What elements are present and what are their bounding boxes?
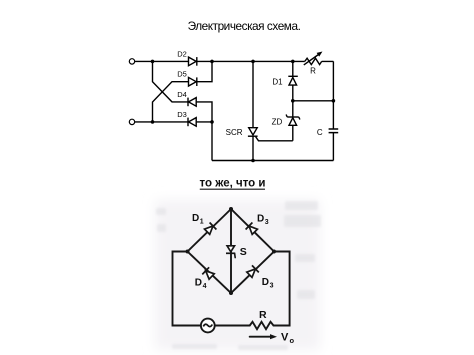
svg-text:3: 3 (265, 219, 269, 226)
svg-text:Электрическая схема.: Электрическая схема. (188, 19, 301, 33)
svg-text:то же, что и: то же, что и (200, 177, 266, 189)
svg-text:ZD: ZD (272, 118, 283, 127)
svg-text:3: 3 (270, 282, 274, 289)
svg-text:1: 1 (200, 218, 204, 225)
svg-text:o: o (290, 336, 295, 345)
svg-text:D1: D1 (272, 77, 283, 86)
svg-text:V: V (281, 332, 289, 344)
svg-text:D4: D4 (177, 90, 187, 99)
svg-text:D2: D2 (177, 49, 187, 58)
svg-text:4: 4 (203, 283, 207, 290)
svg-text:D: D (257, 214, 264, 225)
svg-text:R: R (310, 67, 316, 76)
svg-text:D: D (195, 278, 202, 289)
svg-text:S: S (240, 246, 247, 258)
svg-text:D3: D3 (177, 110, 187, 119)
svg-text:C: C (317, 128, 323, 137)
svg-text:R: R (259, 309, 267, 321)
svg-text:D: D (192, 213, 199, 224)
svg-text:D: D (262, 277, 269, 288)
svg-text:SCR: SCR (226, 128, 243, 137)
svg-text:D5: D5 (177, 70, 187, 79)
